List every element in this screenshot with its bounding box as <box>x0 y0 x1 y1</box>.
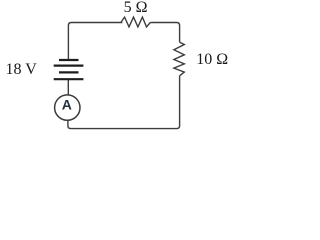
svg-text:10 Ω: 10 Ω <box>196 51 228 68</box>
battery B1 plate long bottom <box>54 78 84 80</box>
resistor R1 5-ohm zigzag <box>121 17 151 27</box>
battery B1 plate short lower <box>59 71 79 73</box>
ammeter A1 circle <box>55 95 80 120</box>
svg-text:18 V: 18 V <box>6 61 38 78</box>
battery B1 plate short top <box>59 59 79 61</box>
wire top-right: resistor to top-right corner and down to 10-ohm <box>150 23 179 43</box>
wire battery bottom to ammeter top <box>67 80 69 95</box>
wire top-left: battery top to 5-ohm resistor <box>68 23 122 60</box>
battery B1 plate long upper <box>54 64 84 66</box>
resistor R2 10-ohm zigzag <box>174 42 184 76</box>
svg-text:A: A <box>62 97 72 113</box>
wire right-bottom: 10-ohm down to bottom-right corner, along bottom to ammeter <box>68 76 180 129</box>
svg-text:5 Ω: 5 Ω <box>124 0 148 16</box>
